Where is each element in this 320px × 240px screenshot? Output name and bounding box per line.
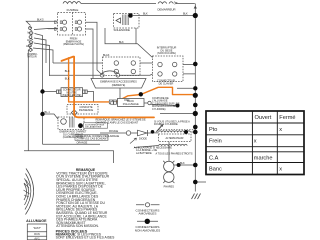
svg-text:"FAST": "FAST"	[33, 227, 41, 230]
svg-text:D'ESSENCE: D'ESSENCE	[79, 109, 94, 112]
svg-text:DEMARREUR: DEMARREUR	[157, 8, 175, 12]
svg-text:BLK: BLK	[65, 70, 70, 73]
svg-text:(2 AMP) LE CAS ECHEANT: (2 AMP) LE CAS ECHEANT	[77, 138, 109, 141]
svg-text:AC2: AC2	[26, 45, 31, 48]
svg-text:A TOUS LES PHARES ETROITS: A TOUS LES PHARES ETROITS	[156, 152, 193, 155]
svg-text:M: M	[28, 32, 30, 35]
svg-text:BLKG: BLKG	[37, 18, 44, 21]
svg-text:marche: marche	[254, 156, 273, 162]
svg-text:BLK: BLK	[180, 162, 185, 165]
svg-text:TATEUR: TATEUR	[27, 56, 37, 59]
svg-text:Pto: Pto	[209, 127, 217, 133]
svg-text:SOLENOIDE: SOLENOIDE	[114, 28, 130, 32]
svg-text:AMOVIBLES: AMOVIBLES	[139, 212, 157, 216]
svg-text:ALTERNATEUR: ALTERNATEUR	[166, 137, 184, 140]
svg-text:CYLINDRE): CYLINDRE)	[152, 108, 166, 111]
svg-text:(NON OCCUPE): (NON OCCUPE)	[157, 52, 176, 55]
svg-text:FUSIBLE: FUSIBLE	[67, 8, 79, 12]
svg-text:DIODE: DIODE	[139, 138, 147, 141]
svg-text:ROUGE: ROUGE	[109, 130, 119, 133]
svg-text:CHARGE (2 AMP) LE CAS ECHEANT: CHARGE (2 AMP) LE CAS ECHEANT	[96, 122, 139, 125]
svg-text:x: x	[254, 139, 257, 145]
svg-text:ALLUMAGE: ALLUMAGE	[26, 219, 47, 223]
svg-text:LA BATTERIE: LA BATTERIE	[136, 152, 152, 155]
svg-text:(PEDALE HAUTE): (PEDALE HAUTE)	[63, 43, 84, 46]
svg-text:(S'ENCLENCHE): (S'ENCLENCHE)	[62, 94, 81, 97]
svg-text:BLK: BLK	[65, 78, 70, 81]
svg-text:NON AMOVIBLES: NON AMOVIBLES	[135, 229, 160, 233]
svg-text:ATTEINDRA SON MISSION.: ATTEINDRA SON MISSION.	[56, 224, 99, 228]
svg-text:(DEBRAYE): (DEBRAYE)	[112, 84, 126, 87]
svg-text:Banc: Banc	[209, 167, 222, 173]
svg-text:C.A: C.A	[209, 156, 219, 162]
svg-text:DOUBLE CYLINDRE: DOUBLE CYLINDRE	[154, 123, 178, 126]
svg-text:x: x	[279, 127, 282, 133]
svg-text:BLK: BLK	[143, 13, 148, 16]
svg-text:AC: AC	[27, 39, 31, 42]
svg-text:BLK: BLK	[119, 41, 124, 44]
svg-text:PHARES: PHARES	[164, 186, 175, 189]
svg-text:SONT ENLEVEES ET LES FILS AISE: SONT ENLEVEES ET LES FILS AISES	[56, 236, 116, 240]
svg-text:BLK: BLK	[183, 13, 188, 16]
svg-text:DE LA BATTERIE: DE LA BATTERIE	[85, 126, 102, 129]
svg-text:D'ALLUMAGE: D'ALLUMAGE	[123, 103, 139, 106]
svg-text:x: x	[279, 167, 282, 173]
svg-text:Fermé: Fermé	[279, 115, 295, 121]
svg-text:ORANGE: ORANGE	[77, 141, 88, 144]
svg-text:Frein: Frein	[209, 139, 222, 145]
svg-text:Ouvert: Ouvert	[255, 115, 272, 121]
svg-text:DE CLAVIER: DE CLAVIER	[159, 83, 174, 86]
svg-text:BLAK: BLAK	[103, 54, 110, 57]
svg-text:RUN: RUN	[34, 233, 40, 236]
svg-text:BL-1: BL-1	[45, 111, 51, 114]
